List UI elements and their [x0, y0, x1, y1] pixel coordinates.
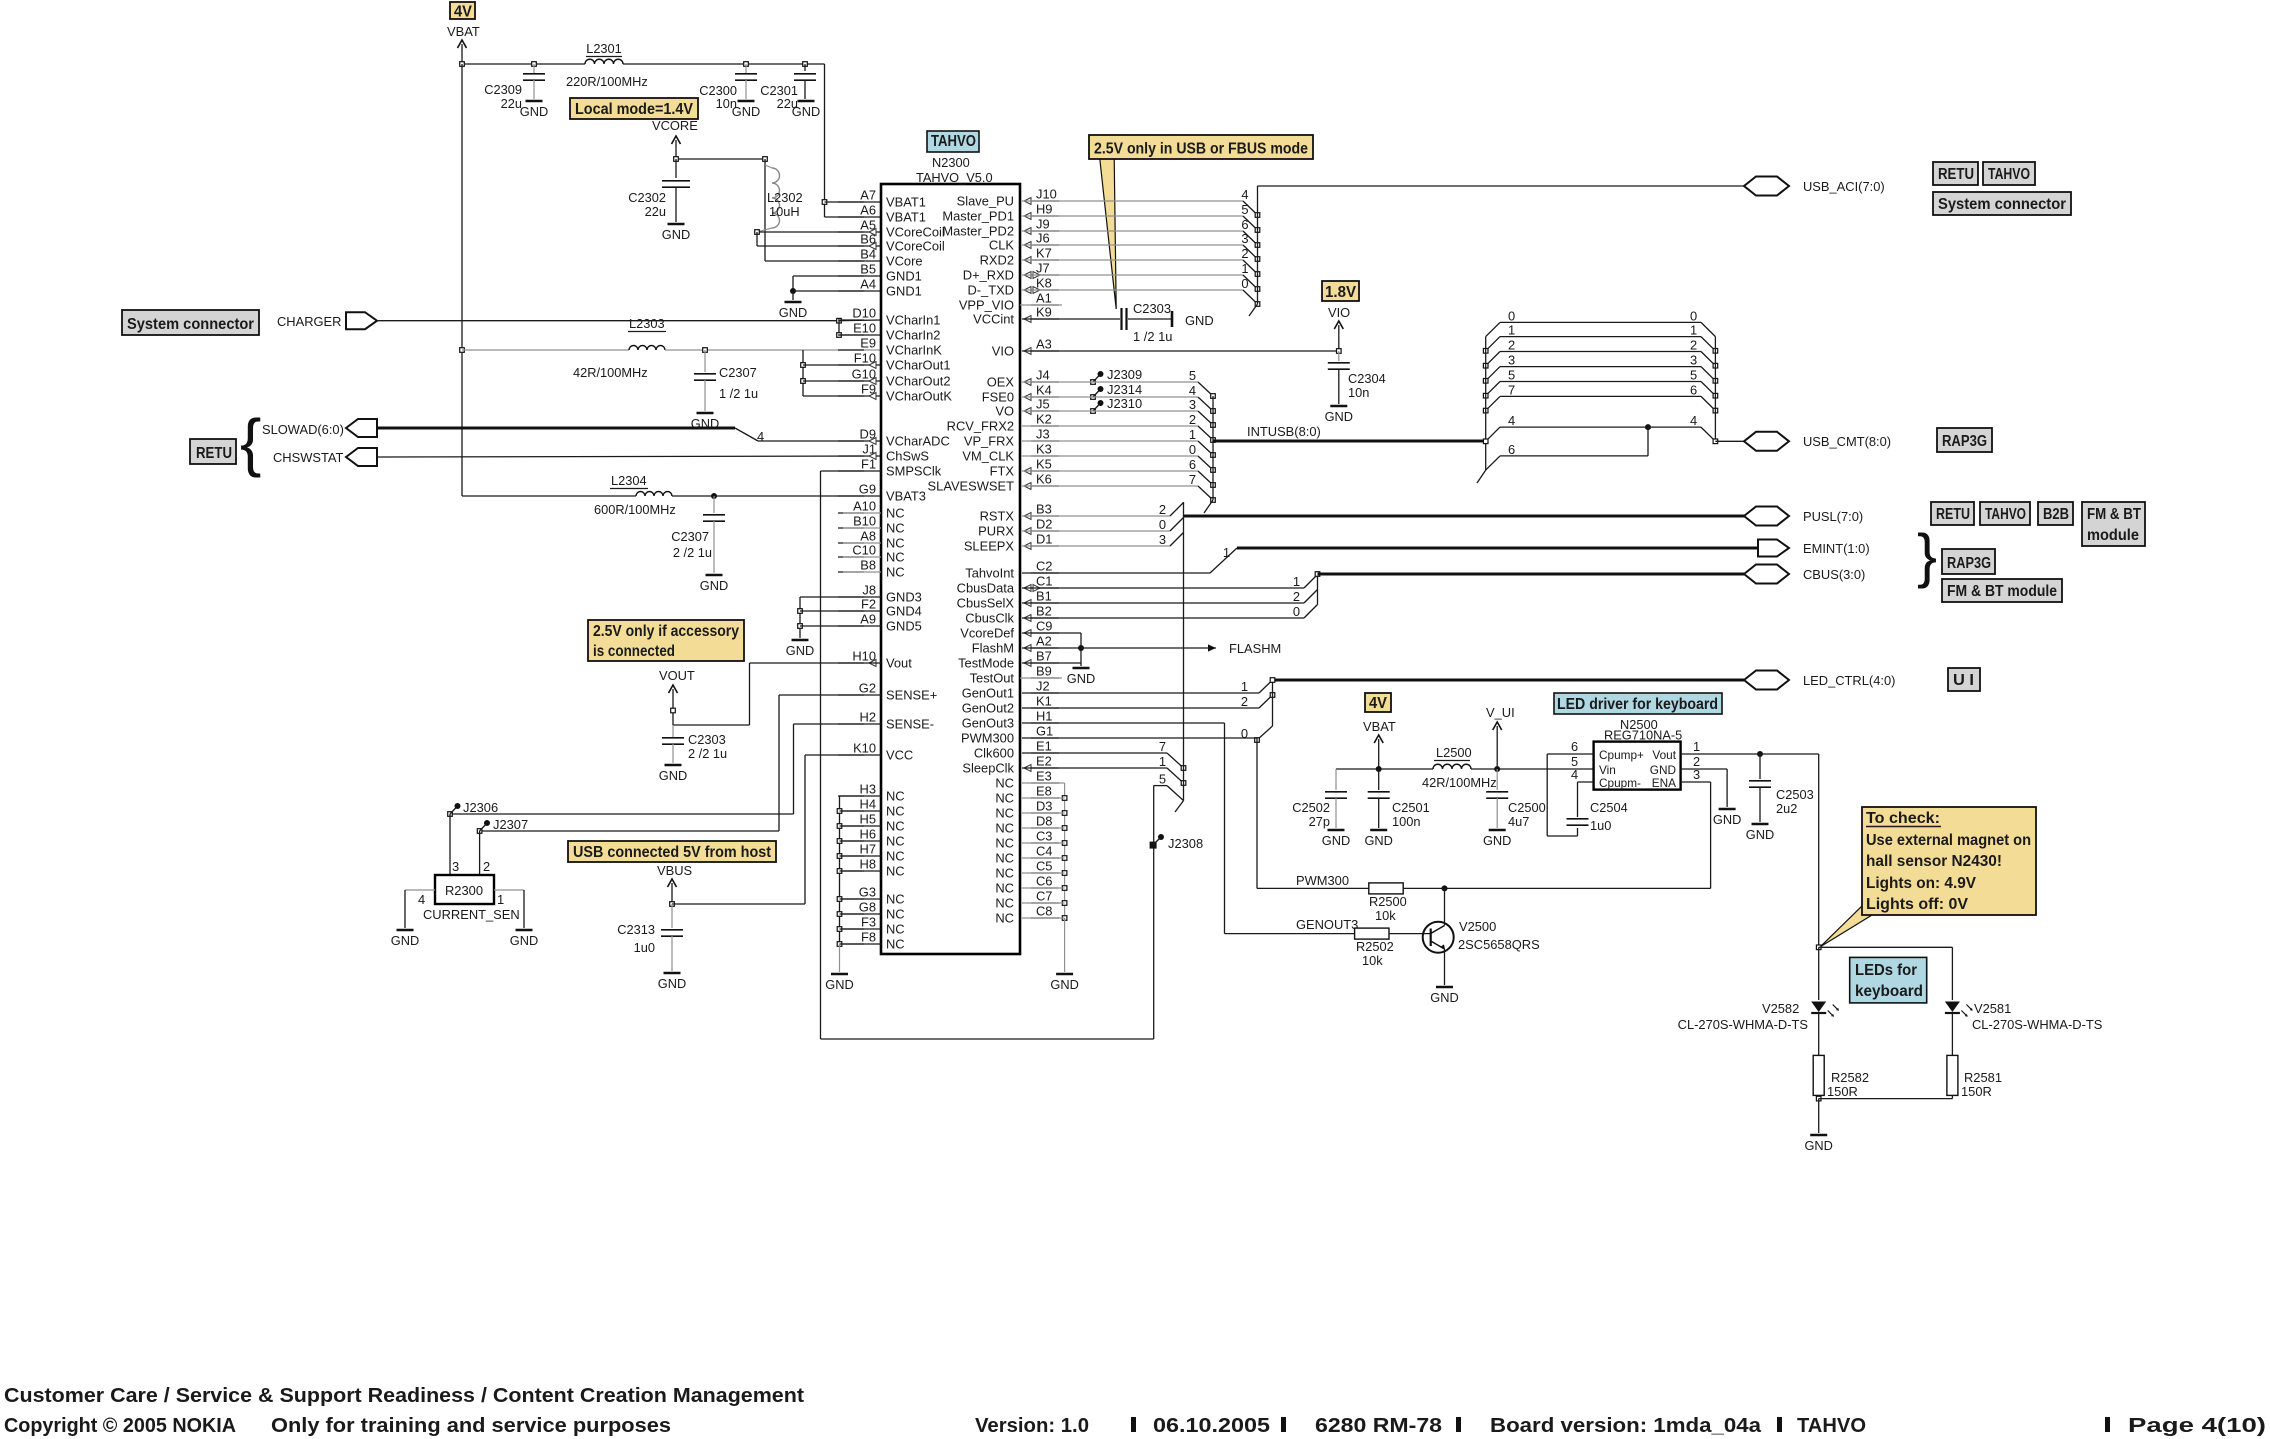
svg-text:Page 4(10): Page 4(10) [2128, 1415, 2266, 1437]
svg-text:C2307: C2307 [719, 365, 757, 380]
svg-text:22u: 22u [501, 96, 522, 111]
svg-text:E9: E9 [860, 336, 876, 351]
svg-text:VBAT: VBAT [1363, 719, 1396, 734]
label TAHVO (USB_ACI) [1983, 162, 2035, 185]
svg-text:CbusSelX: CbusSelX [957, 596, 1015, 611]
wire VcoreDef/TestMode to ground [1022, 633, 1084, 666]
wire Vout pin to VOUT [671, 663, 881, 725]
svg-text:To check:: To check: [1866, 810, 1940, 827]
svg-text:GND: GND [1364, 833, 1392, 848]
svg-text:Master_PD2: Master_PD2 [942, 224, 1014, 239]
svg-text:4: 4 [1690, 413, 1697, 428]
svg-text:K9: K9 [1036, 305, 1052, 320]
note USB connected 5V from host [568, 841, 776, 862]
jumper J2307 [477, 817, 528, 833]
svg-text:1: 1 [1690, 323, 1697, 338]
svg-text:NC: NC [886, 864, 905, 879]
svg-text:C4: C4 [1036, 844, 1052, 859]
svg-text:3: 3 [1159, 532, 1166, 547]
svg-text:module: module [2087, 527, 2139, 544]
power net VOUT [659, 668, 695, 725]
svg-text:GND: GND [1325, 409, 1353, 424]
svg-text:VP_FRX: VP_FRX [964, 434, 1015, 449]
svg-text:5: 5 [1508, 368, 1515, 383]
svg-text:GND: GND [1804, 1138, 1832, 1153]
wire right NC pins to ground [1022, 783, 1067, 972]
svg-text:4: 4 [757, 429, 764, 444]
svg-text:K10: K10 [853, 741, 876, 756]
svg-text:VCharInK: VCharInK [886, 343, 942, 358]
svg-text:VCharOutK: VCharOutK [886, 389, 952, 404]
svg-text:GND: GND [700, 578, 728, 593]
svg-text:D-_TXD: D-_TXD [967, 283, 1014, 298]
svg-text:J7: J7 [1036, 261, 1050, 276]
svg-text:{: { [240, 406, 261, 478]
svg-text:10k: 10k [1375, 908, 1396, 923]
svg-text:G9: G9 [859, 482, 876, 497]
svg-text:6: 6 [1571, 739, 1578, 754]
brace right nets [1917, 522, 1937, 589]
svg-text:C2307: C2307 [671, 529, 709, 544]
svg-text:RETU: RETU [1938, 166, 1974, 183]
bus USB_CMT crossover fan [1477, 308, 1744, 483]
svg-text:E8: E8 [1036, 784, 1052, 799]
svg-text:Vin: Vin [1599, 763, 1616, 777]
svg-text:E3: E3 [1036, 769, 1052, 784]
bus INTUSB(8:0) [1213, 424, 1486, 441]
svg-text:100n: 100n [1392, 814, 1420, 829]
jumper J2306 [448, 800, 498, 816]
svg-text:PURX: PURX [978, 524, 1014, 539]
svg-text:A4: A4 [860, 277, 876, 292]
svg-text:5: 5 [1189, 368, 1196, 383]
capacitor C2504 1u0 [1567, 800, 1628, 833]
svg-text:H8: H8 [860, 857, 876, 872]
ground [779, 302, 807, 320]
wire GENOUT3 net [1022, 723, 1358, 934]
svg-text:1 /2 1u: 1 /2 1u [1133, 329, 1172, 344]
svg-text:TestMode: TestMode [958, 656, 1014, 671]
svg-text:C2303: C2303 [1133, 301, 1171, 316]
wire LED bottom join to ground [1816, 1095, 1952, 1133]
svg-text:Vout: Vout [1652, 748, 1676, 762]
svg-text:USB_CMT(8:0): USB_CMT(8:0) [1803, 434, 1891, 449]
label RETU (USB_ACI) [1933, 162, 1978, 185]
svg-text:42R/100MHz: 42R/100MHz [1422, 775, 1497, 790]
svg-text:SLEEPX: SLEEPX [964, 539, 1015, 554]
label RETU (PUSL) [1931, 502, 1974, 525]
svg-text:H4: H4 [860, 797, 876, 812]
svg-text:VIO: VIO [1328, 305, 1350, 320]
svg-text:10uH: 10uH [769, 204, 800, 219]
svg-text:1: 1 [1241, 261, 1248, 276]
svg-text:NC: NC [995, 866, 1014, 881]
svg-text:D1: D1 [1036, 532, 1052, 547]
svg-text:CURRENT_SEN: CURRENT_SEN [423, 907, 520, 922]
svg-text:0: 0 [1293, 604, 1300, 619]
svg-text:1: 1 [1223, 545, 1230, 560]
svg-text:CHSWSTAT: CHSWSTAT [273, 450, 344, 465]
svg-text:A10: A10 [853, 499, 876, 514]
svg-text:A7: A7 [860, 188, 876, 203]
bus LED_CTRL(4:0) [1270, 678, 1744, 683]
svg-text:6: 6 [1690, 382, 1697, 397]
svg-text:RCV_FRX2: RCV_FRX2 [947, 419, 1014, 434]
svg-text:R2581: R2581 [1964, 1070, 2002, 1085]
net CBUS(3:0) flag [1744, 565, 1865, 584]
svg-text:C2500: C2500 [1508, 800, 1546, 815]
svg-text:1: 1 [1508, 323, 1515, 338]
svg-text:B8: B8 [860, 558, 876, 573]
svg-text:TAHVO: TAHVO [1985, 506, 2026, 523]
jumper J2309 [1091, 367, 1142, 384]
svg-text:NC: NC [995, 896, 1014, 911]
svg-text:SENSE-: SENSE- [886, 717, 934, 732]
power flag 4V VBAT (LED) [1363, 693, 1396, 769]
capacitor C2309 22u [484, 64, 545, 111]
svg-text:2: 2 [1293, 589, 1300, 604]
ground [510, 930, 538, 948]
svg-text:J6: J6 [1036, 231, 1050, 246]
svg-text:4: 4 [1189, 383, 1196, 398]
svg-text:B3: B3 [1036, 502, 1052, 517]
svg-text:CL-270S-WHMA-D-TS: CL-270S-WHMA-D-TS [1972, 1017, 2102, 1032]
svg-text:CL-270S-WHMA-D-TS: CL-270S-WHMA-D-TS [1678, 1017, 1808, 1032]
svg-text:LED_CTRL(4:0): LED_CTRL(4:0) [1803, 673, 1895, 688]
svg-text:N2300: N2300 [932, 155, 970, 170]
svg-text:L2302: L2302 [767, 190, 803, 205]
svg-text:B4: B4 [860, 247, 876, 262]
ground [1746, 824, 1774, 842]
net USB_CMT(8:0) flag [1744, 432, 1891, 451]
svg-text:ENA: ENA [1652, 776, 1676, 790]
svg-text:J2308: J2308 [1168, 836, 1203, 851]
svg-text:GND: GND [1185, 313, 1214, 328]
note 2.5V only if accessory is connected [588, 620, 744, 661]
svg-text:Lights off: 0V: Lights off: 0V [1866, 896, 1969, 913]
svg-text:VCharIn2: VCharIn2 [886, 328, 940, 343]
svg-text:G2: G2 [859, 681, 876, 696]
svg-text:J2309: J2309 [1107, 367, 1142, 382]
svg-text:3: 3 [1189, 397, 1196, 412]
svg-text:C3: C3 [1036, 829, 1052, 844]
svg-text:R2300: R2300 [445, 883, 483, 898]
svg-text:GND5: GND5 [886, 619, 922, 634]
svg-text:2u2: 2u2 [1776, 801, 1797, 816]
svg-text:VCORE: VCORE [652, 118, 698, 133]
svg-text:PUSL(7:0): PUSL(7:0) [1803, 509, 1863, 524]
svg-text:0: 0 [1241, 276, 1248, 291]
svg-text:1.8V: 1.8V [1325, 284, 1357, 301]
resistor R2500 10k [1369, 883, 1448, 923]
svg-text:NC: NC [886, 550, 905, 565]
ground [1713, 809, 1741, 827]
net PUSL(7:0) flag [1744, 507, 1863, 526]
svg-text:3: 3 [452, 859, 459, 874]
svg-text:NC: NC [886, 521, 905, 536]
label TAHVO (PUSL) [1980, 502, 2030, 525]
svg-text:K3: K3 [1036, 442, 1052, 457]
IC N2300 TAHVO_V5.0 main chip [881, 131, 1020, 954]
svg-text:F3: F3 [861, 915, 876, 930]
wire ENA pin3 to PWM300 [1445, 782, 1711, 888]
bus EMINT slash 1 [1022, 545, 1237, 573]
svg-text:C2504: C2504 [1590, 800, 1628, 815]
svg-text:GND: GND [1650, 763, 1676, 777]
svg-text:R2502: R2502 [1356, 939, 1394, 954]
ground [1804, 1135, 1832, 1153]
svg-text:USB connected 5V from host: USB connected 5V from host [573, 844, 771, 861]
svg-text:NC: NC [995, 791, 1014, 806]
ground [1364, 830, 1392, 848]
svg-text:1u0: 1u0 [634, 940, 655, 955]
svg-text:K8: K8 [1036, 276, 1052, 291]
ground [1483, 830, 1511, 848]
svg-text:0: 0 [1159, 517, 1166, 532]
svg-text:2.5V only if accessory: 2.5V only if accessory [593, 623, 739, 640]
svg-text:J2310: J2310 [1107, 396, 1142, 411]
svg-text:GND: GND [1746, 827, 1774, 842]
svg-text:SLAVESWSET: SLAVESWSET [928, 479, 1015, 494]
svg-text:NC: NC [886, 937, 905, 952]
svg-text:V2582: V2582 [1762, 1001, 1799, 1016]
svg-text:VO: VO [995, 404, 1014, 419]
svg-text:VIO: VIO [992, 344, 1014, 359]
footer text [4, 1385, 2266, 1437]
svg-text:NC: NC [886, 536, 905, 551]
svg-text:4: 4 [1241, 187, 1248, 202]
svg-text:Master_PD1: Master_PD1 [942, 209, 1014, 224]
svg-text:A8: A8 [860, 529, 876, 544]
wire SENSE- to J2306 [450, 724, 881, 814]
svg-text:GND: GND [510, 933, 538, 948]
wire CHARGER to VCharIn1/VCharIn2 [377, 318, 881, 337]
svg-text:VM_CLK: VM_CLK [962, 449, 1014, 464]
svg-text:NC: NC [886, 849, 905, 864]
capacitor C2304 10n [1328, 351, 1386, 404]
svg-text:B1: B1 [1036, 589, 1052, 604]
svg-text:GND: GND [520, 104, 548, 119]
svg-text:0: 0 [1690, 308, 1697, 323]
svg-text:GND: GND [658, 976, 686, 991]
jumper J2308 [1150, 834, 1204, 851]
svg-text:D10: D10 [852, 306, 876, 321]
svg-text:GND: GND [732, 104, 760, 119]
svg-text:C7: C7 [1036, 889, 1052, 904]
svg-text:L2301: L2301 [586, 41, 622, 56]
label U I [1948, 668, 1980, 691]
svg-text:V2500: V2500 [1459, 919, 1496, 934]
svg-text:FSE0: FSE0 [982, 390, 1014, 405]
ground [662, 224, 690, 242]
svg-text:GND: GND [391, 933, 419, 948]
svg-text:J9: J9 [1036, 217, 1050, 232]
svg-text:K2: K2 [1036, 412, 1052, 427]
svg-text:Cpump+: Cpump+ [1599, 748, 1644, 762]
svg-text:VBUS: VBUS [657, 863, 692, 878]
svg-text:GND: GND [792, 104, 820, 119]
net CHARGER input flag [277, 312, 377, 329]
LED V2582 CL-270S-WHMA-D-TS [1678, 1001, 1839, 1055]
svg-text:RETU: RETU [1936, 506, 1970, 523]
svg-text:L2304: L2304 [611, 473, 647, 488]
inductor L2301 220R/100MHz [566, 41, 648, 89]
label RETU (left) [190, 439, 236, 464]
svg-text:GND4: GND4 [886, 604, 922, 619]
label FM & BT module (CBUS) [1942, 579, 2062, 602]
svg-text:VBAT1: VBAT1 [886, 210, 926, 225]
svg-text:2: 2 [1690, 338, 1697, 353]
svg-text:6: 6 [1508, 442, 1515, 457]
ground [1067, 668, 1095, 686]
svg-text:R2500: R2500 [1369, 894, 1407, 909]
svg-text:LED driver for keyboard: LED driver for keyboard [1557, 696, 1718, 713]
svg-text:600R/100MHz: 600R/100MHz [594, 502, 676, 517]
svg-text:2: 2 [1159, 502, 1166, 517]
note 2.5V only in USB or FBUS mode with callout [1089, 135, 1313, 309]
svg-text:150R: 150R [1827, 1084, 1858, 1099]
label LEDs for keyboard [1850, 957, 1927, 1003]
svg-text:7: 7 [1508, 382, 1515, 397]
svg-text:4: 4 [1508, 413, 1515, 428]
svg-text:GND: GND [1067, 671, 1095, 686]
svg-text:1u0: 1u0 [1590, 818, 1611, 833]
svg-text:GND: GND [1713, 812, 1741, 827]
svg-text:2 /2 1u: 2 /2 1u [673, 545, 712, 560]
ground [1050, 974, 1078, 992]
power net VBUS [657, 863, 692, 904]
svg-text:NC: NC [886, 834, 905, 849]
ground [1430, 987, 1458, 1005]
wire VBUS to VCC pin [670, 755, 881, 906]
svg-text:VCharOut1: VCharOut1 [886, 358, 951, 373]
svg-text:J2314: J2314 [1107, 382, 1142, 397]
svg-text:Version: 1.0: Version: 1.0 [975, 1415, 1089, 1437]
stub A1 VPP_VIO [1020, 304, 1062, 306]
svg-text:J2: J2 [1036, 679, 1050, 694]
resistor R2582 150R [1813, 1055, 1869, 1099]
svg-text:VCCint: VCCint [973, 312, 1014, 327]
svg-text:GND: GND [1483, 833, 1511, 848]
capacitor C2502 27p [1292, 769, 1347, 829]
label RAP3G (CBUS) [1942, 549, 1995, 574]
svg-text:L2303: L2303 [629, 316, 665, 331]
svg-text:RAP3G: RAP3G [1942, 433, 1987, 450]
svg-text:B10: B10 [853, 514, 876, 529]
svg-text:C2304: C2304 [1348, 371, 1386, 386]
svg-text:1: 1 [1159, 754, 1166, 769]
inductor L2302 10uH [755, 165, 881, 246]
wire CHSWSTAT [377, 456, 881, 457]
svg-text:F8: F8 [861, 930, 876, 945]
svg-text:10n: 10n [1348, 385, 1369, 400]
wire Vout to LEDs [1681, 754, 1819, 947]
svg-text:NC: NC [995, 851, 1014, 866]
net CHSWSTAT flag [273, 448, 377, 466]
svg-text:E10: E10 [853, 321, 876, 336]
svg-text:LEDs for: LEDs for [1855, 962, 1917, 979]
net EMINT(1:0) flag [1758, 540, 1870, 557]
jumper J2314 [1091, 382, 1142, 399]
bus CBUS(3:0) [1318, 573, 1745, 576]
transistor V2500 2SC5658QRS [1423, 888, 1540, 985]
bus INTUSB fan [1022, 368, 1215, 513]
wire Cpump+ loop [1547, 754, 1593, 836]
chip left pin names and numbers [838, 188, 952, 952]
svg-text:Use external magnet on: Use external magnet on [1866, 832, 2031, 849]
svg-text:C6: C6 [1036, 874, 1052, 889]
svg-text:2 /2 1u: 2 /2 1u [688, 746, 727, 761]
svg-text:CBUS(3:0): CBUS(3:0) [1803, 567, 1865, 582]
svg-text:NC: NC [886, 819, 905, 834]
svg-text:7: 7 [1189, 472, 1196, 487]
svg-text:06.10.2005: 06.10.2005 [1153, 1415, 1270, 1437]
svg-text:TAHVO: TAHVO [1797, 1415, 1866, 1437]
svg-text:VOUT: VOUT [659, 668, 695, 683]
svg-text:GND: GND [1322, 833, 1350, 848]
svg-text:2: 2 [1508, 338, 1515, 353]
brace left nets [240, 406, 261, 478]
svg-text:C8: C8 [1036, 904, 1052, 919]
svg-text:3: 3 [1241, 231, 1248, 246]
resistor R2300 CURRENT_SEN [405, 814, 524, 928]
ground [1325, 406, 1353, 424]
power net V_UI [1486, 705, 1515, 769]
wire VIO pin A3 [1022, 349, 1341, 354]
svg-text:FlashM: FlashM [972, 641, 1014, 656]
capacitor C2301 22u [760, 64, 816, 111]
capacitor C2313 1u0 [617, 904, 683, 971]
svg-text:C2501: C2501 [1392, 800, 1430, 815]
wire SENSE+ to J2307 [480, 695, 881, 831]
capacitor C2501 100n [1368, 769, 1430, 829]
svg-text:REG710NA-5: REG710NA-5 [1604, 728, 1682, 743]
svg-text:GENOUT3: GENOUT3 [1296, 917, 1358, 932]
svg-text:F1: F1 [861, 457, 876, 472]
svg-text:H2: H2 [860, 710, 876, 725]
svg-text:OEX: OEX [987, 375, 1015, 390]
svg-text:RSTX: RSTX [980, 509, 1015, 524]
svg-text:H3: H3 [860, 782, 876, 797]
svg-text:0: 0 [1241, 726, 1248, 741]
svg-text:220R/100MHz: 220R/100MHz [566, 74, 648, 89]
svg-text:NC: NC [995, 836, 1014, 851]
resistor R2581 150R [1947, 1055, 2002, 1099]
svg-text:NC: NC [886, 789, 905, 804]
svg-text:FM & BT: FM & BT [2087, 506, 2141, 523]
svg-text:4V: 4V [454, 4, 473, 21]
svg-text:C2309: C2309 [484, 82, 522, 97]
svg-text:R2582: R2582 [1831, 1070, 1869, 1085]
net USB_ACI(7:0) flag [1744, 177, 1885, 196]
svg-text:E1: E1 [1036, 739, 1052, 754]
svg-text:GND: GND [1430, 990, 1458, 1005]
svg-text:3: 3 [1508, 353, 1515, 368]
svg-text:VBAT3: VBAT3 [886, 489, 926, 504]
svg-text:J2307: J2307 [493, 817, 528, 832]
wire LED branch top [1816, 945, 1952, 1000]
svg-text:TAHVO: TAHVO [931, 133, 976, 150]
svg-text:4: 4 [418, 892, 425, 907]
svg-text:NC: NC [886, 922, 905, 937]
svg-text:H6: H6 [860, 827, 876, 842]
wire PWM300 net [1022, 738, 1369, 888]
ground [691, 413, 719, 431]
svg-text:5: 5 [1690, 368, 1697, 383]
svg-text:B2: B2 [1036, 604, 1052, 619]
svg-text:RETU: RETU [196, 445, 232, 462]
svg-text:TahvoInt: TahvoInt [965, 566, 1014, 581]
